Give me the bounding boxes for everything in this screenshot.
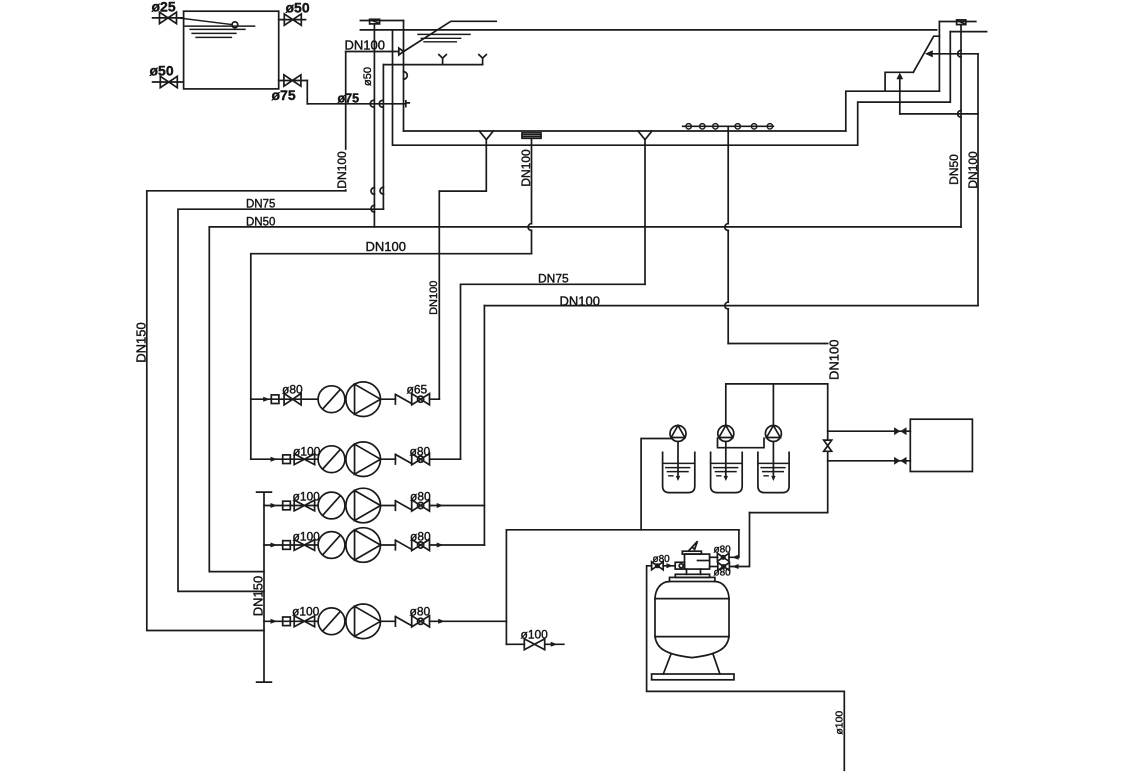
wire multiport left port (663, 565, 675, 567)
arrow row1 (263, 397, 270, 402)
jump riser feed at line1 (380, 187, 383, 194)
jump riser ø50 at line1 (371, 188, 374, 195)
skimmer box right (957, 20, 966, 25)
wire row2 discharge (381, 458, 461, 460)
wire row3 suction (264, 505, 318, 507)
riser DN100 pool inlet upper (345, 52, 347, 150)
strainer row2 (318, 446, 345, 473)
riser rows34 discharge (483, 306, 485, 545)
svg-text:ø100: ø100 (293, 530, 321, 544)
arrow row2 (271, 457, 278, 462)
line4 DN100 trunk (251, 254, 532, 460)
valve ø75 (284, 75, 301, 86)
chem tank 1 levels (663, 463, 695, 475)
valve ø65 row1 (412, 394, 430, 405)
wire filter top manifold (506, 530, 739, 645)
arrow into left port (666, 563, 673, 568)
floor nozzle circles (686, 124, 773, 129)
pool floor (404, 130, 846, 132)
valve riser vertical (824, 440, 832, 451)
flange plate (675, 574, 709, 577)
pump row1 (346, 382, 381, 417)
wire HX supply (828, 430, 911, 432)
wire step inlet line (900, 113, 978, 115)
svg-text:DN50: DN50 (947, 154, 961, 185)
arrow row3 (271, 503, 278, 508)
svg-text:DN100: DN100 (560, 294, 600, 309)
riser DN100 pool inlet lower stub (345, 189, 347, 192)
wire row4 suction (264, 544, 318, 546)
svg-text:DN100: DN100 (966, 151, 980, 189)
valve ø80 bottom-right (718, 563, 730, 571)
check valve row2 (395, 454, 411, 464)
svg-text:ø100: ø100 (292, 605, 320, 619)
wire multiport bottom-right return (730, 513, 750, 567)
chem tank 3 (758, 452, 789, 492)
right compartment water line (950, 31, 986, 33)
line2 DN75 trunk (178, 209, 383, 591)
tank dome top (655, 582, 729, 599)
collar plate (670, 577, 715, 581)
valve ø50 top-right (284, 14, 301, 25)
svg-text:DN150: DN150 (251, 576, 266, 616)
arrow waste (551, 642, 558, 647)
svg-text:DN50: DN50 (246, 216, 275, 228)
float ball (232, 22, 238, 28)
connector row5 (283, 617, 291, 626)
dosing suction arrow 1 (676, 476, 680, 481)
connector row1 (271, 395, 279, 404)
step inlet arrowhead (896, 73, 903, 80)
line DN75 mid (461, 284, 646, 459)
strainer row1 (318, 386, 345, 413)
valve ø100 waste (524, 639, 544, 650)
check valve row4 (395, 540, 411, 550)
svg-text:ø100: ø100 (834, 711, 846, 735)
svg-text:ø100: ø100 (293, 490, 321, 504)
stair diagonal (913, 36, 939, 72)
wire ø75 outlet elbow (306, 81, 308, 104)
valve ø80 top-right (717, 553, 729, 561)
valve ø80 row5 (412, 616, 430, 627)
svg-text:DN100: DN100 (366, 239, 406, 254)
line1 DN150 trunk (147, 191, 346, 631)
svg-text:DN100: DN100 (428, 281, 440, 315)
tank shell sides (655, 599, 729, 637)
wire multiport top-right inlet (729, 530, 739, 558)
floor nozzle bank line (683, 125, 774, 127)
wire chem manifold (726, 384, 828, 426)
wire row1 discharge (381, 398, 440, 400)
nozzle Y2 (479, 55, 486, 65)
strainer row4 (318, 532, 345, 559)
dosing suction 3 (772, 442, 774, 479)
valve ø50 top-right line (279, 19, 306, 21)
bench step right (885, 72, 913, 91)
svg-text:DN100: DN100 (345, 38, 385, 53)
svg-text:ø75: ø75 (272, 87, 296, 103)
connector row2 (283, 455, 291, 464)
valve HX return (894, 457, 906, 465)
svg-text:ø80: ø80 (410, 445, 431, 459)
drain V2 (479, 131, 493, 140)
nozzle Y1 (439, 55, 446, 65)
svg-text:ø50: ø50 (362, 67, 374, 86)
pool left deck line (360, 20, 403, 22)
pool water surface line (360, 29, 936, 31)
jump on ø75 pipe at riser2 (379, 100, 382, 107)
jump on ø75 pipe at riser1 (370, 100, 373, 107)
chem tank 2 (711, 452, 743, 492)
dosing suction arrow 3 (771, 476, 775, 481)
svg-text:ø80: ø80 (410, 490, 431, 504)
wire stair spray line (933, 53, 978, 55)
jump riser ø50 at line2 (371, 205, 374, 212)
chem tank 2 levels (711, 463, 743, 475)
wire ø75 pipe to pool wall (307, 101, 409, 107)
check valve row3 (395, 501, 411, 511)
line3 DN50 horizontal (209, 226, 961, 228)
tank bottom dome (655, 637, 729, 658)
svg-text:ø75: ø75 (338, 92, 360, 106)
dosing suction arrow 2 (724, 476, 728, 481)
DN100 inlet arrow (399, 48, 404, 55)
chem tank 3 levels (758, 463, 789, 475)
connector row3 (283, 501, 291, 510)
stair spray arrowhead (925, 50, 933, 57)
svg-text:DN100: DN100 (335, 151, 349, 189)
wire waste outlet (506, 643, 563, 645)
wire row1 suction (251, 398, 318, 400)
valve ø100 row3 (294, 500, 314, 511)
valve ø80 row3 (412, 500, 430, 511)
pool right wall (938, 22, 940, 92)
line3 elbow up to DN50 riser (960, 226, 962, 228)
arrow row3 out (437, 503, 444, 508)
valve ø75 tank outlet line (279, 80, 308, 82)
dosing pump 3 (765, 426, 781, 442)
svg-text:ø80: ø80 (410, 530, 431, 544)
svg-text:ø100: ø100 (521, 628, 549, 642)
valve ø100 row2 (294, 454, 314, 465)
wire DN100 inlet (346, 51, 399, 53)
main drain grate (522, 133, 541, 138)
svg-text:ø50: ø50 (286, 0, 310, 16)
valve ø50 bottom-left (160, 76, 177, 87)
header DN150 (257, 492, 272, 682)
riser ø50 skimmer (373, 24, 375, 227)
svg-text:ø50: ø50 (150, 63, 174, 79)
riser DN50 right (960, 25, 962, 227)
valve body (685, 554, 710, 569)
strainer row3 (318, 492, 345, 519)
svg-text:ø65: ø65 (407, 383, 428, 397)
arrow row4 (271, 543, 278, 548)
pool right step up (846, 91, 940, 131)
skimmer box left (370, 19, 380, 24)
valve ø80 row1 (284, 394, 301, 405)
svg-text:ø80: ø80 (714, 545, 732, 556)
svg-text:ø80: ø80 (282, 383, 303, 397)
body notch (698, 560, 710, 562)
jump DN50 at spray line (958, 50, 961, 57)
svg-text:DN75: DN75 (538, 272, 569, 286)
svg-text:ø80: ø80 (714, 568, 732, 579)
riser row1 discharge (438, 191, 440, 399)
sight glass (679, 564, 683, 568)
connector row4 (283, 541, 291, 550)
valve ø25 (160, 12, 177, 23)
wire bank stem to chem riser (728, 343, 824, 345)
drain V1 (638, 131, 652, 140)
tank seam bottom (655, 636, 729, 638)
svg-text:ø80: ø80 (410, 605, 431, 619)
tank base (652, 674, 734, 680)
neck stems (687, 569, 701, 574)
wire row5 suction (264, 620, 318, 622)
svg-text:ø80: ø80 (653, 554, 671, 565)
valve ø100 row5 (294, 616, 314, 627)
heat exchanger (910, 419, 972, 471)
svg-text:DN150: DN150 (134, 322, 149, 362)
chem riser DN100 (750, 384, 828, 513)
step inlet arrow stem (899, 79, 901, 114)
arrow row4 out (437, 543, 444, 548)
valve ø80 left (652, 562, 664, 570)
chem tank 1 (663, 452, 695, 492)
pool left wall (403, 21, 405, 132)
wire inlet-nozzle feed (383, 64, 482, 66)
wire chem pump1 feed riser (641, 439, 672, 530)
pump row3 (346, 488, 381, 523)
left wing (675, 562, 684, 569)
wire row3 discharge (381, 505, 485, 507)
tank water level lines (185, 26, 255, 37)
multiport valve head (670, 541, 715, 581)
arrow into bottom-right valve (732, 564, 739, 569)
svg-text:DN100: DN100 (827, 340, 842, 380)
svg-text:DN100: DN100 (519, 149, 533, 187)
valve ø80 row2 (412, 454, 430, 465)
jump stem main drain at line3 (528, 224, 531, 231)
arrow into top-right valve (732, 555, 739, 560)
vertical labels (134, 322, 266, 616)
riser nozzle feed (382, 65, 384, 210)
pool right deck line (939, 21, 975, 23)
riser DN100 right (977, 54, 979, 306)
wire HX return (828, 460, 911, 462)
dosing suction 2 (725, 442, 727, 479)
water slope symbol (404, 21, 496, 51)
drain V2 stem (439, 140, 486, 192)
strainer row5 (318, 608, 345, 635)
arrow row5 (271, 619, 278, 624)
valve ø80 row4 (412, 539, 430, 550)
svg-text:DN75: DN75 (246, 199, 275, 211)
jump bank stem at line3 (725, 224, 728, 231)
check valve row1 (395, 394, 411, 404)
pump row4 (346, 528, 381, 563)
floor bank stem (727, 126, 729, 343)
valve ø25 inlet line (153, 17, 184, 19)
wire gutter return (393, 30, 951, 145)
dosing pump 1 (670, 426, 686, 442)
dosing pump 2 (718, 426, 734, 442)
dosing suction 1 (677, 442, 679, 479)
water surface hatches (418, 34, 470, 41)
underwater light (404, 72, 408, 80)
filter tank (652, 582, 734, 680)
svg-text:ø100: ø100 (293, 445, 321, 459)
wire top-right valve to body (710, 556, 718, 558)
jump bank stem at DN100 bus (725, 302, 728, 309)
line DN100 bus (484, 305, 978, 307)
top plate (682, 551, 701, 554)
jump DN50 at step line (958, 111, 961, 118)
wire backwash drain (647, 566, 845, 771)
wire bottom-right valve to body (710, 566, 718, 568)
svg-text:ø25: ø25 (152, 0, 176, 15)
wire row4 discharge (381, 544, 485, 546)
lever flag (689, 541, 698, 551)
valve HX supply (894, 427, 906, 435)
wire row2 suction (251, 458, 318, 460)
wire row5 discharge (381, 620, 507, 622)
main drain stem (531, 138, 533, 253)
tank seam top (655, 598, 729, 600)
valve ø50 bottom-left line (153, 81, 184, 83)
pump row2 (346, 442, 381, 477)
check valve row5 (395, 617, 411, 627)
pump row5 (346, 604, 381, 639)
line3 DN50 trunk (209, 227, 264, 572)
float valve arm (178, 18, 232, 25)
valve ø100 row4 (294, 540, 314, 551)
arrow row5 out (438, 619, 445, 624)
chem riser DN100 upper (825, 343, 828, 345)
drain V1 stem (644, 140, 646, 285)
tank legs (663, 655, 720, 674)
balance tank body (184, 11, 279, 89)
wire pump2-pump3 link (718, 438, 765, 448)
